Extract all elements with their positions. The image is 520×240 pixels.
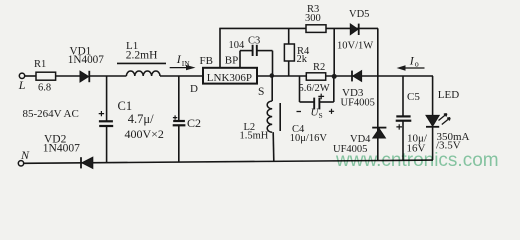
terminal L — [18, 73, 26, 92]
svg-text:300: 300 — [305, 13, 321, 24]
capacitor C5 — [396, 76, 428, 160]
wire FB pin vertical — [219, 28, 221, 67]
wire VD1 to L1 — [89, 75, 126, 77]
svg-text:10V/1W: 10V/1W — [337, 40, 373, 51]
resistor R4 — [284, 28, 310, 76]
svg-text:LNK306P: LNK306P — [207, 72, 252, 84]
svg-text:S: S — [258, 86, 264, 98]
svg-text:o: o — [415, 60, 419, 69]
svg-text:104: 104 — [229, 40, 246, 51]
resistor R1 — [34, 59, 56, 94]
svg-text:C3: C3 — [248, 35, 260, 46]
svg-text:S: S — [319, 111, 323, 120]
diode VD2 — [43, 134, 93, 169]
svg-text:400V×2: 400V×2 — [125, 127, 164, 141]
svg-text:C2: C2 — [187, 116, 201, 130]
svg-text:85-264V AC: 85-264V AC — [23, 108, 79, 120]
wire L to R1 — [25, 75, 36, 77]
terminal N — [18, 148, 30, 166]
svg-text:1N4007: 1N4007 — [68, 54, 104, 66]
svg-text:L: L — [18, 78, 26, 92]
resistor R3 — [305, 4, 326, 32]
diode VD1 — [68, 45, 104, 82]
svg-text:10μ/16V: 10μ/16V — [290, 133, 328, 144]
wire BP pin vertical — [239, 51, 241, 68]
zener VD5 — [337, 9, 373, 52]
capacitor C2 — [173, 76, 201, 162]
capacitor C3 — [229, 35, 273, 56]
svg-text:IN: IN — [182, 59, 190, 68]
svg-text:BP: BP — [225, 54, 238, 66]
svg-text:www.cntronics.com: www.cntronics.com — [335, 150, 499, 171]
svg-text:1N4007: 1N4007 — [43, 143, 80, 155]
wire top rail to node R2 — [333, 28, 335, 76]
wire C3 to node S — [272, 51, 274, 76]
svg-text:N: N — [20, 148, 30, 162]
current arrow I_O — [397, 53, 425, 70]
wire L1 to IC — [160, 75, 203, 77]
svg-text:VD5: VD5 — [349, 9, 369, 20]
svg-text:R1: R1 — [34, 59, 46, 70]
inductor L2 — [240, 76, 281, 162]
wire R1 to VD1 — [56, 75, 80, 77]
wire right rail vertical — [377, 28, 379, 160]
svg-text:C1: C1 — [118, 99, 133, 113]
svg-text:R2: R2 — [313, 62, 325, 73]
svg-text:2k: 2k — [297, 54, 308, 65]
svg-text:VD4: VD4 — [350, 134, 371, 145]
wire bottom rail — [24, 160, 433, 163]
op-amp U1 LNK306P — [190, 54, 264, 98]
svg-text:UF4005: UF4005 — [341, 97, 375, 108]
current arrow I_IN — [170, 52, 196, 70]
capacitor C1 — [99, 76, 164, 163]
svg-text:D: D — [190, 83, 198, 95]
svg-text:1.5mH: 1.5mH — [240, 131, 269, 142]
LED — [426, 76, 470, 160]
capacitor C4 — [290, 76, 334, 144]
svg-text:FB: FB — [200, 55, 213, 67]
svg-text:LED: LED — [438, 89, 459, 101]
svg-text:2.2mH: 2.2mH — [126, 49, 158, 61]
node S junction — [270, 73, 275, 78]
diode VD4 — [333, 128, 386, 156]
svg-text:6.8: 6.8 — [38, 83, 51, 94]
resistor R2 — [299, 62, 330, 94]
wire S rail — [257, 75, 433, 77]
diode VD3 — [341, 71, 375, 109]
svg-text:4.7μ/: 4.7μ/ — [128, 112, 154, 126]
node R2 junction — [332, 74, 337, 79]
svg-text:C5: C5 — [407, 91, 420, 103]
wire top rail — [219, 27, 378, 29]
voltage label Us — [297, 107, 335, 121]
svg-text:5.6/2W: 5.6/2W — [299, 83, 330, 94]
inductor L1 — [117, 40, 166, 76]
